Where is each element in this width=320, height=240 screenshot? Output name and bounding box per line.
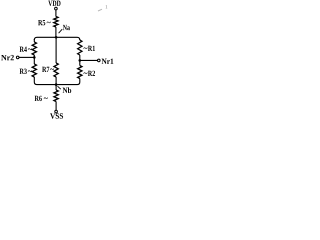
wire R2 to bottom rail (79, 79, 81, 83)
node Na (55, 36, 58, 39)
wire R3 to bottom rail (33, 77, 35, 82)
wire top-left (33, 39, 35, 42)
wire top-right (79, 39, 81, 40)
label R7 tilde (50, 68, 54, 70)
wire R7 to Nb (55, 77, 57, 85)
label Nr2 (1, 55, 14, 60)
VDD label (48, 1, 60, 6)
wire R6 to VSS (55, 102, 57, 111)
VSS label (50, 113, 63, 118)
wire Nb to R6 (55, 85, 57, 90)
terminal Nr1 (98, 59, 101, 62)
label R3 tilde (28, 70, 32, 72)
VSS terminal (55, 110, 58, 113)
label Nb (63, 87, 72, 93)
label R4 (20, 47, 27, 52)
label R1 tilde (83, 47, 87, 49)
junction node left (33, 56, 36, 59)
leader Na (59, 29, 63, 33)
wire R4 to junction (33, 55, 35, 64)
label R5 tilde (47, 22, 51, 24)
resistor R3 (32, 64, 36, 77)
junction node right (79, 59, 82, 62)
node Nb (55, 83, 58, 86)
wire Nr1 (80, 59, 98, 61)
label R2 (88, 71, 95, 76)
terminal Nr2 (16, 56, 19, 59)
resistor R7 (54, 63, 58, 77)
wire VDD to R5 (55, 10, 57, 17)
leader Nb (58, 86, 61, 89)
wire R5 to Na (55, 27, 57, 37)
bottom rail wire (34, 82, 80, 85)
wire R1 to junction (79, 55, 81, 66)
top rail wire (34, 37, 80, 40)
resistor R1 (78, 40, 82, 55)
wire Nr2 (19, 56, 34, 58)
label R2 tilde (83, 72, 87, 74)
resistor R4 (32, 42, 36, 55)
label Nr1 (102, 59, 114, 64)
wire Na to R7 (55, 37, 57, 63)
label R1 (88, 46, 95, 51)
label R3 (20, 69, 27, 74)
resistor R2 (78, 66, 82, 79)
label R5 (38, 20, 45, 25)
label Na (63, 25, 70, 30)
label R6 (35, 96, 42, 101)
label R4 tilde (28, 48, 32, 50)
label R6 tilde (44, 97, 48, 99)
faint annotation 1 (105, 5, 107, 9)
resistor R5 (54, 17, 58, 28)
faint annotation leader (98, 9, 102, 11)
VDD terminal (55, 7, 58, 10)
resistor R6 (54, 90, 58, 102)
label R7 (42, 67, 49, 72)
